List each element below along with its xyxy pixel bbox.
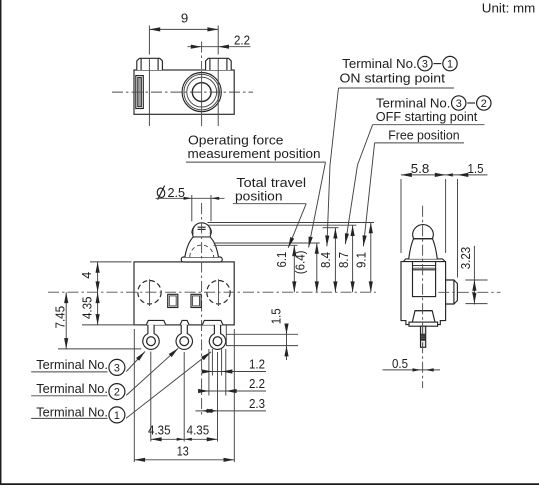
front view plunger tip marks	[198, 226, 206, 228]
front view body	[134, 262, 234, 325]
extension line circle center	[201, 42, 203, 70]
svg-text:Free position: Free position	[388, 127, 460, 142]
front view plunger bell	[185, 237, 219, 257]
svg-text:8.7: 8.7	[336, 252, 351, 268]
svg-text:3: 3	[114, 362, 120, 374]
figure frame left border	[0, 0, 2, 485]
svg-text:13: 13	[177, 443, 189, 458]
side view plunger bell	[409, 239, 438, 259]
svg-text:3.23: 3.23	[458, 247, 473, 270]
dimension 13	[134, 459, 234, 461]
svg-text:ON starting point: ON starting point	[340, 71, 446, 86]
dimension 2.2 top view	[187, 46, 250, 48]
dimension 5.8	[401, 174, 446, 176]
top view side slot	[136, 76, 144, 109]
projection line free position 9.1	[208, 222, 375, 224]
side view plunger dome	[413, 225, 434, 239]
dimension 1.5 front	[226, 333, 298, 335]
svg-text:8.4: 8.4	[318, 252, 333, 268]
side view pin upper lines	[420, 312, 422, 323]
side view vertical centerline	[422, 206, 424, 388]
extension line terminal1 center	[217, 352, 219, 442]
svg-text:Terminal No.: Terminal No.	[342, 56, 417, 71]
projection line ON 8.7	[208, 224, 357, 226]
svg-text:2.2: 2.2	[249, 376, 265, 391]
svg-text:9: 9	[181, 11, 188, 26]
svg-text:4.35: 4.35	[187, 423, 210, 438]
svg-text:OFF starting point: OFF starting point	[376, 109, 478, 124]
side view boss base plate	[409, 322, 438, 326]
svg-text:6.1: 6.1	[274, 252, 289, 268]
svg-text:Terminal No.: Terminal No.	[36, 405, 108, 420]
dimension phi2.5	[156, 187, 165, 198]
svg-text:position: position	[235, 188, 283, 203]
front view plunger dome inner arcs	[193, 226, 195, 234]
side view flange washer	[404, 259, 444, 262]
extension lines side top dims	[400, 179, 402, 253]
dimension 9 top view	[149, 28, 218, 30]
dimension 6.1	[293, 245, 295, 292]
front view right contact window	[191, 294, 201, 307]
leader terminal no.2	[126, 348, 178, 395]
side view body	[401, 262, 446, 325]
side view slot	[413, 270, 436, 297]
top view left terminal bump	[137, 58, 163, 70]
leader terminal no.3	[126, 352, 145, 372]
extension line left bump center	[148, 26, 150, 55]
top view right terminal bump	[206, 58, 232, 70]
front view left mounting hole	[138, 281, 161, 304]
svg-text:Unit: mm: Unit: mm	[482, 1, 536, 16]
svg-text:5.8: 5.8	[411, 161, 430, 176]
leader terminal no.1	[126, 352, 211, 418]
svg-text:0.5: 0.5	[392, 356, 408, 371]
dimension 1.5 side top	[446, 174, 488, 176]
dimension (6.4)	[316, 243, 318, 292]
svg-text:2: 2	[114, 387, 120, 399]
svg-text:2: 2	[481, 98, 487, 110]
svg-text:1: 1	[447, 59, 453, 71]
front view terminal 1 lug	[209, 325, 225, 349]
dimension 0.5	[383, 369, 441, 371]
front view terminal 3 lug	[143, 325, 159, 349]
dimension 3.23	[465, 279, 487, 281]
extension line body left	[133, 329, 135, 462]
svg-text:1.5: 1.5	[468, 161, 484, 176]
svg-text:Terminal No.: Terminal No.	[36, 357, 108, 372]
top view horizontal centerline	[112, 91, 253, 93]
side view slot upper lines	[413, 265, 436, 267]
extension line right tab edge	[225, 325, 227, 346]
extension lines 2.2	[208, 349, 210, 396]
extension line body right	[233, 329, 235, 462]
front view plunger dome	[192, 223, 212, 237]
leader ON starting point	[330, 88, 339, 165]
svg-text:measurement position: measurement position	[188, 146, 321, 161]
front view bottom tab middle	[180, 320, 189, 325]
dimension 8.7	[352, 225, 354, 292]
dimension 4.35 left	[82, 324, 140, 326]
dimension 2.2 bottom	[200, 390, 267, 392]
svg-text:Terminal No.: Terminal No.	[36, 381, 108, 396]
top view body	[134, 70, 234, 114]
side view terminal bump	[446, 280, 458, 304]
dimension 4	[90, 261, 132, 263]
extension lines 4.35 chain	[150, 352, 152, 442]
front view bottom tab right	[202, 320, 223, 325]
svg-text:4: 4	[79, 272, 94, 279]
dimension 7.45	[58, 348, 141, 350]
dimension 9.1	[370, 223, 372, 293]
front view plunger centerline	[201, 203, 203, 417]
dimension 1.2	[204, 371, 267, 373]
side view pin	[421, 326, 426, 347]
svg-text:4.35: 4.35	[148, 423, 171, 438]
side view boss	[412, 311, 435, 322]
front view plunger dashed arc	[190, 245, 214, 257]
leader OFF starting point	[358, 125, 373, 165]
svg-text:(6.4): (6.4)	[293, 251, 308, 275]
svg-text:2.3: 2.3	[249, 396, 265, 411]
extension line right bump center	[217, 26, 219, 55]
front view plunger base washer	[181, 257, 222, 262]
svg-text:1.5: 1.5	[269, 308, 284, 324]
svg-text:1.2: 1.2	[249, 357, 265, 372]
projection line total travel 6.4	[214, 242, 320, 244]
extension lines 1.2	[211, 349, 213, 376]
svg-text:7.45: 7.45	[52, 306, 67, 329]
projection line op force 6.1	[214, 244, 298, 246]
svg-text:2.2: 2.2	[234, 33, 250, 48]
side view bump centerline	[438, 291, 500, 293]
front view left contact window	[168, 294, 178, 307]
svg-text:9.1: 9.1	[354, 252, 369, 268]
leader operating force	[309, 162, 326, 247]
svg-text:3: 3	[422, 59, 428, 71]
projection line OFF 8.4	[323, 227, 339, 229]
dimension 2.3	[196, 410, 267, 412]
front view horizontal centerline	[48, 291, 376, 293]
top view plunger circles	[182, 73, 221, 112]
dimension 4.35 4.35 chain	[151, 438, 218, 440]
leader total travel position	[288, 204, 306, 248]
svg-text:1: 1	[114, 410, 120, 422]
leader free position	[363, 143, 374, 246]
svg-text:4.35: 4.35	[80, 297, 95, 320]
svg-text:2.5: 2.5	[168, 185, 186, 200]
front view bottom tab left	[146, 320, 166, 325]
front view right mounting hole	[207, 281, 230, 304]
dimension 8.4	[334, 228, 336, 293]
figure frame bottom border	[0, 483, 539, 485]
front view terminal 2 lug	[176, 325, 192, 350]
